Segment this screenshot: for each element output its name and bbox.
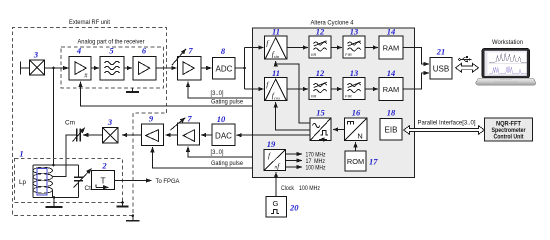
RF input port [21, 62, 30, 75]
FIR filter 13 (bottom) [343, 68, 365, 100]
node tank bottom [53, 196, 56, 199]
svg-text:19: 19 [267, 139, 276, 149]
svg-text:IIR: IIR [311, 93, 316, 98]
USB to workstation double arrow [456, 63, 479, 72]
svg-text:Control Unit: Control Unit [494, 134, 525, 141]
frequency divider 16 [345, 108, 368, 141]
gating wire to amp 9 [153, 147, 253, 168]
IIR filter 12 (top) [309, 27, 331, 59]
ground (tank) [46, 198, 63, 208]
wire RAM2 to USB [403, 73, 429, 89]
svg-text:Lp: Lp [19, 179, 27, 186]
wire 11cos to 12b [287, 88, 308, 90]
svg-text:3: 3 [33, 50, 39, 60]
wire 13 to RAM [365, 47, 378, 49]
wire mixer3 to node [45, 67, 54, 69]
wire 11sin to 12 [287, 47, 308, 49]
svg-text:Clock: Clock [281, 185, 295, 192]
workstation laptop [476, 49, 536, 86]
svg-text:15: 15 [316, 108, 325, 118]
inductor Lp [19, 165, 52, 198]
gain bus wire to VGA7 top [188, 82, 253, 98]
svg-text:18: 18 [387, 108, 396, 118]
ADC 8 [212, 46, 235, 79]
wire Cm to coil tap [52, 135, 77, 177]
External RF unit dashed enclosure [13, 28, 167, 216]
mixer 3 (top) [30, 50, 45, 76]
svg-text:ADC: ADC [216, 64, 233, 73]
clock wire 17 MHz [286, 160, 303, 162]
node box1 corner [121, 201, 124, 204]
svg-text:14: 14 [387, 68, 396, 78]
node tank top [52, 164, 55, 167]
wire 15 to fsin input [276, 61, 310, 123]
svg-text:11: 11 [272, 27, 280, 37]
svg-text:[3..0]: [3..0] [211, 90, 224, 97]
gain bus wire to VGA7 bottom [188, 147, 253, 158]
wire 6 to 7 [156, 67, 177, 69]
wire 20 to 19 [275, 172, 277, 196]
svg-text:12: 12 [316, 27, 325, 37]
amp 4 (gated preamp) [69, 46, 91, 81]
svg-text:FIR: FIR [345, 93, 352, 98]
svg-text:Gating pulse: Gating pulse [211, 99, 243, 106]
svg-text:12: 12 [316, 68, 325, 78]
FIR filter 13 (top) [343, 27, 365, 59]
coil former (blue) [37, 169, 47, 196]
wire ROM to 16 [355, 142, 357, 151]
wire RAM1 to USB [403, 48, 429, 65]
svg-text:[3..0]: [3..0] [211, 149, 224, 156]
wire node to amp 4 [54, 67, 69, 69]
ground (box1 shield) [117, 203, 129, 207]
svg-text:T: T [100, 177, 105, 186]
svg-text:EIB: EIB [385, 125, 398, 134]
tank top rail [33, 164, 79, 166]
svg-text:100 MHz: 100 MHz [299, 185, 320, 192]
amp 9 [142, 113, 164, 145]
svg-text:N: N [357, 132, 362, 141]
svg-text:10: 10 [217, 114, 226, 124]
svg-text:20: 20 [289, 203, 299, 213]
svg-text:Analog part of the receiver: Analog part of the receiver [78, 39, 146, 46]
tank bottom rail [33, 197, 79, 199]
filter 5 [100, 46, 124, 81]
DAC 10 [212, 114, 235, 146]
wire 7 to ADC [201, 67, 212, 69]
svg-text:Parallel Interface[3..0]: Parallel Interface[3..0] [418, 119, 476, 126]
ROM 17 [345, 151, 378, 171]
USB trident icon [459, 56, 472, 62]
wire 15 to DAC [236, 134, 310, 136]
node ADC out [243, 67, 246, 70]
wire 9 to mixer [122, 134, 142, 136]
svg-text:13: 13 [350, 68, 359, 78]
digital mixer 11 (sin) [265, 27, 288, 60]
labels clock frequencies [306, 152, 326, 172]
clock wire 170 MHz [286, 153, 303, 155]
node A (receiver tap) [52, 67, 55, 70]
node outer shield corner [132, 214, 135, 217]
svg-text:Ct: Ct [85, 185, 92, 192]
svg-text:IIR: IIR [311, 52, 316, 57]
svg-text:RAM: RAM [383, 85, 399, 94]
USB 21 [430, 47, 452, 80]
PLL multiplier 19 [264, 139, 286, 171]
svg-text:Cm: Cm [65, 120, 75, 127]
Analog part dashed enclosure [61, 47, 164, 88]
ground (outer shield) [126, 216, 140, 221]
RAM 14 (top) [379, 27, 403, 60]
VGA 7 (top) [172, 46, 201, 81]
wire 4 to 5 [91, 67, 99, 69]
wire 12 to 13 [331, 47, 342, 49]
wire to mixer 11 sin [245, 47, 264, 49]
wire to mixer 11 cos [245, 88, 264, 90]
VGA 7 (bottom) [171, 114, 200, 146]
capacitor Cm (variable) [65, 120, 85, 142]
svg-text:Workstation: Workstation [492, 39, 523, 46]
wire 13b to RAM2 [365, 88, 378, 90]
wire 7b to 9 [165, 134, 177, 136]
svg-text:G: G [273, 199, 279, 208]
svg-text:1: 1 [19, 149, 23, 159]
wire mixer to Cm [83, 134, 103, 136]
wire 16 to 15 [333, 129, 345, 131]
RAM 14 (bottom) [379, 68, 403, 101]
svg-text:FIR: FIR [345, 52, 352, 57]
svg-text:21: 21 [436, 47, 446, 57]
wire 15 to fcos input [276, 102, 310, 130]
temperature sensor 2 [92, 161, 115, 190]
ADC output wire [235, 67, 245, 69]
svg-text:14: 14 [387, 27, 396, 37]
tank left drop [32, 165, 34, 198]
svg-text:17: 17 [369, 157, 378, 167]
wire To FPGA [115, 180, 152, 182]
wire DAC to VGA 7b [201, 134, 212, 136]
clock wire 100 MHz [286, 166, 303, 168]
IIR filter 12 (bottom) [309, 68, 331, 100]
svg-text:RAM: RAM [383, 43, 399, 52]
clock generator 20 [266, 197, 299, 218]
svg-text:4: 4 [76, 46, 81, 56]
sine-to-square converter 15 [310, 108, 331, 141]
wire 5 to 6 [124, 67, 132, 69]
capacitor Ct (variable) [74, 165, 92, 198]
svg-text:100 MHz: 100 MHz [306, 165, 326, 172]
svg-text:To FPGA: To FPGA [156, 178, 181, 185]
ground (analog box) [126, 88, 139, 92]
NQR-FFT control unit [485, 118, 533, 141]
EIB 18 [380, 108, 402, 141]
parallel interface double arrow [404, 126, 485, 135]
svg-text:13: 13 [350, 27, 359, 37]
amp 6 [133, 46, 156, 81]
digital mixer 11 (cos) [265, 68, 288, 101]
svg-text:External RF unit: External RF unit [69, 19, 110, 26]
svg-text:Gating pulse: Gating pulse [211, 160, 243, 167]
label: Clock 100 MHz [281, 185, 320, 192]
Altera Cyclone 4 FPGA [253, 28, 415, 178]
svg-text:3: 3 [107, 117, 113, 127]
wire node down to tank [53, 68, 55, 165]
svg-text:USB: USB [433, 64, 449, 73]
mixer 3 (bottom) [103, 117, 119, 143]
svg-text:2: 2 [101, 161, 107, 171]
svg-text:16: 16 [352, 108, 361, 118]
ADC bus riser [244, 48, 246, 90]
svg-text:Altera Cyclone 4: Altera Cyclone 4 [311, 20, 354, 27]
wire 12b to 13b [331, 88, 342, 90]
probehead dashed box 1 [15, 159, 123, 203]
svg-text:ROM: ROM [347, 157, 364, 166]
gating wire to amp 4 [81, 82, 253, 106]
svg-text:DAC: DAC [215, 131, 232, 140]
svg-text:11: 11 [272, 68, 280, 78]
